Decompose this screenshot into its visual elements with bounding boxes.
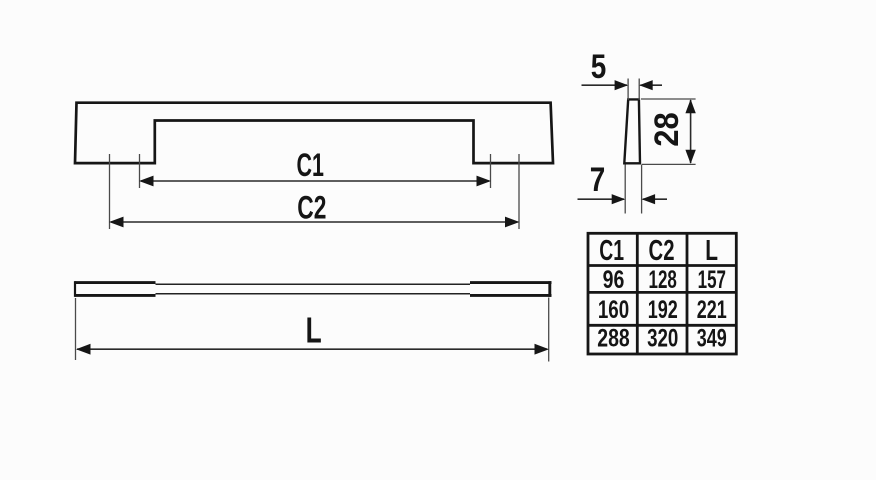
svg-text:C2: C2 — [297, 190, 326, 226]
svg-text:7: 7 — [590, 160, 606, 198]
svg-text:128: 128 — [649, 266, 677, 294]
svg-text:28: 28 — [648, 112, 686, 146]
svg-text:349: 349 — [697, 324, 727, 353]
svg-text:320: 320 — [647, 324, 678, 352]
svg-text:192: 192 — [648, 295, 678, 324]
svg-text:288: 288 — [597, 324, 630, 352]
svg-text:C2: C2 — [649, 234, 675, 266]
svg-text:221: 221 — [697, 295, 727, 324]
svg-text:96: 96 — [603, 266, 625, 294]
svg-text:C1: C1 — [599, 235, 624, 267]
svg-text:L: L — [705, 235, 718, 267]
svg-text:160: 160 — [598, 295, 629, 323]
svg-text:C1: C1 — [296, 146, 323, 183]
svg-text:L: L — [306, 309, 322, 350]
svg-text:5: 5 — [591, 47, 607, 85]
svg-text:157: 157 — [698, 266, 726, 294]
